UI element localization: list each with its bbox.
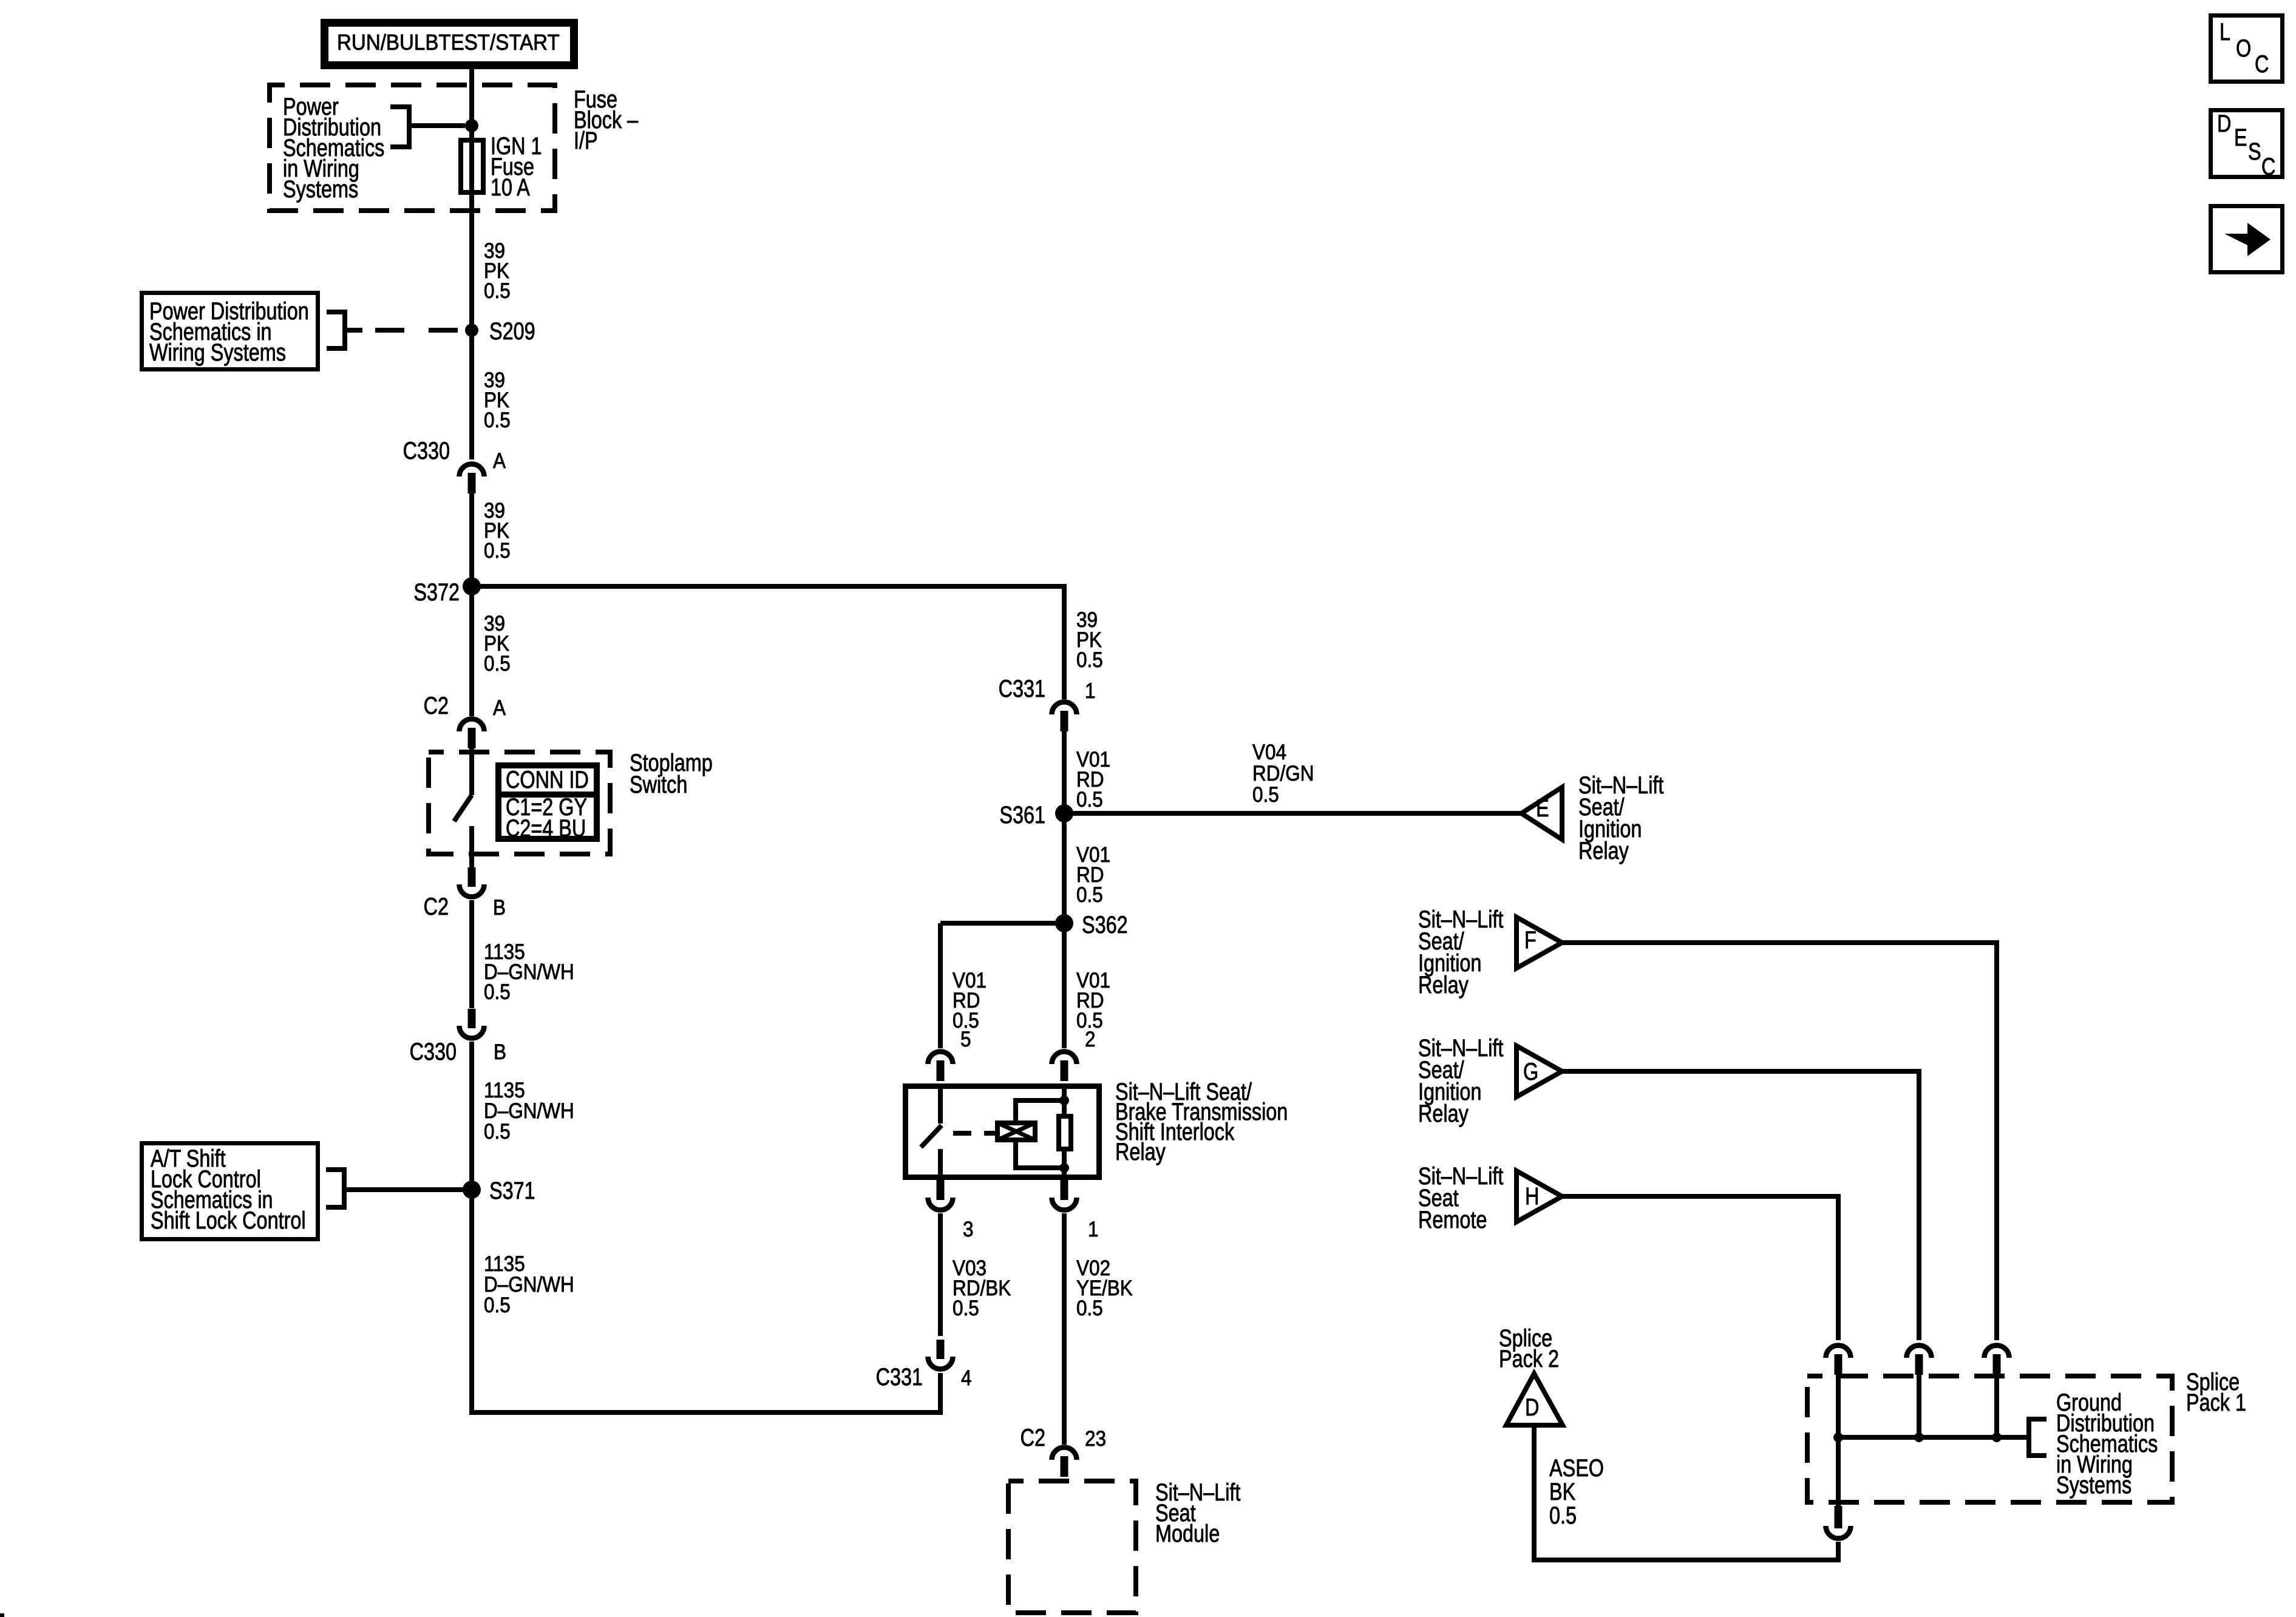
bracket from Power Distribution reference to fuse feed [390,107,465,147]
splice S362 [1055,911,1128,938]
node coil loop bottom [1059,1163,1069,1173]
label C2 (pin B) [424,893,506,920]
splice S371 [463,1177,535,1204]
icon box LOC [2211,16,2283,82]
connector C330 pin A [460,464,484,494]
svg-text:0.5: 0.5 [1252,784,1279,807]
label Ground Distribution Schematics [2056,1389,2158,1499]
relay coil [996,1122,1036,1141]
relay switch contact upper [938,1086,943,1124]
svg-text:1: 1 [1088,1218,1099,1242]
connector arrow H from Sit-N-Lift Seat Remote [1517,1171,1562,1222]
fuse IGN 1 10A [461,140,483,192]
svg-text:S: S [2248,138,2261,165]
connector C331 pin 4 [928,1340,953,1369]
svg-text:C2=4 BU: C2=4 BU [506,815,586,842]
svg-text:0.5: 0.5 [484,280,511,303]
connector splice pack (F wire) [1985,1346,2009,1375]
svg-text:Systems: Systems [2056,1471,2131,1499]
reference box Power Distribution Schematics in Wiring Systems [142,293,318,370]
wire label V04 RD/GN 0.5 [1252,741,1314,807]
svg-text:Shift Lock Control: Shift Lock Control [151,1207,306,1234]
wire splice pack output to D [1534,1425,1838,1560]
relay resistor [1059,1086,1071,1178]
connector arrow F from Sit-N-Lift Seat/Ignition Relay [1517,917,1562,968]
svg-text:B: B [494,1041,506,1065]
svg-text:V04: V04 [1252,741,1286,765]
wire label V01 RD 0.5 (pin 5) [953,969,987,1033]
label Stoplamp Switch [630,749,713,798]
wire S362 to relay pin 2 [1062,923,1067,1048]
svg-text:A: A [493,697,506,720]
svg-text:C2: C2 [1021,1424,1045,1451]
svg-text:E: E [1536,795,1549,822]
svg-text:0.5: 0.5 [1076,884,1103,907]
relay box Sit-N-Lift Seat / BTSI [906,1086,1099,1178]
wire G to splice pack [1562,1071,1919,1340]
Sit-N-Lift Seat Module dashed outline [1008,1481,1136,1613]
svg-text:C331: C331 [999,675,1045,702]
label IGN 1 Fuse 10 A [491,132,542,201]
reference text Power Distribution Schematics (fuse block) [283,93,384,203]
svg-text:D: D [1525,1394,1539,1421]
svg-text:CONN ID: CONN ID [506,766,589,793]
wire F column inside splice pack [1994,1374,1999,1437]
wire label V01 RD 0.5 (above S362) [1076,844,1110,907]
wire C330 B to S371 [469,1042,474,1190]
wire label 39 PK 0.5 (below S372) [484,612,511,676]
wire G column inside splice pack [1917,1374,1921,1437]
svg-text:Module: Module [1155,1520,1220,1547]
wire label 39 PK 0.5 (above S209) [484,240,511,303]
wire label 1135 D-GN/WH 0.5 (upper) [484,941,574,1005]
svg-text:0.5: 0.5 [1549,1502,1577,1529]
wire F to splice pack [1562,943,1997,1340]
wire label 1135 D-GN/WH 0.5 (lower) [484,1253,574,1318]
svg-text:Relay: Relay [1418,971,1469,998]
node ground bus (H) [1833,1432,1843,1442]
svg-text:Pack 1: Pack 1 [2186,1389,2246,1416]
wire label 1135 D-GN/WH 0.5 (middle) [484,1079,574,1144]
fuse block I/P dashed outline [270,85,555,211]
ignition voltage source box RUN/BULBTEST/START [325,23,574,66]
svg-text:B: B [493,897,506,920]
reference box A/T Shift Lock Control Schematics [142,1144,318,1239]
label Sit-N-Lift Seat Ignition Relay (G) [1418,1034,1503,1127]
svg-text:Systems: Systems [283,175,358,203]
node coil loop top [1059,1096,1069,1105]
svg-text:5: 5 [960,1028,971,1052]
svg-text:0.5: 0.5 [484,1120,511,1144]
wire S372 branch to C331 [472,586,1064,699]
svg-text:C2: C2 [424,893,449,920]
connector C2 pin A [460,719,484,749]
svg-text:0.5: 0.5 [484,1294,511,1318]
wire H column inside splice pack [1836,1374,1841,1506]
svg-text:E: E [2234,124,2247,151]
svg-text:S362: S362 [1082,911,1128,938]
connector relay pin 2 [1052,1051,1077,1081]
connector splice pack (G wire) [1907,1346,1932,1375]
wire S362 branch to relay pin 5 [940,923,1064,1048]
splice S372 [413,577,481,606]
label Sit-N-Lift Seat Brake Transmission Shift Interlock Relay [1115,1078,1288,1165]
wire C331 1 to S361 [1062,731,1067,813]
pin 3 label [963,1218,974,1242]
label C331 (pin 4) [876,1363,972,1391]
svg-text:C2: C2 [424,692,449,719]
relay switch contact lower [938,1149,943,1178]
wire label 39 PK 0.5 (below C330 A) [484,500,511,563]
dashed reference line to S209 [345,328,463,333]
stoplamp switch dashed outline [429,752,610,854]
connector arrow E to Sit-N-Lift Seat/Ignition Relay [1521,787,1562,839]
wire label V02 YE/BK 0.5 [1076,1257,1133,1321]
connector C331 pin 1 [1052,702,1077,731]
label Splice Pack 2 [1499,1324,1559,1372]
label Sit-N-Lift Seat Remote (H) [1418,1162,1503,1233]
wire label 39 PK 0.5 (below S209) [484,369,511,433]
connector arrow D to Splice Pack 2 [1506,1374,1563,1425]
svg-text:H: H [1525,1182,1539,1210]
svg-text:S361: S361 [999,801,1045,829]
svg-text:Remote: Remote [1418,1206,1487,1233]
wire label V03 RD/BK 0.5 [953,1257,1011,1321]
svg-text:0.5: 0.5 [484,409,511,433]
svg-text:I/P: I/P [574,127,598,154]
svg-text:2: 2 [1085,1028,1096,1052]
node ground bus (G) [1914,1432,1924,1442]
svg-text:Relay: Relay [1418,1100,1469,1127]
wire S371 down to corner [472,1190,940,1412]
connector relay pin 5 [928,1051,953,1081]
wire label V01 RD 0.5 (above S361) [1076,748,1110,812]
node fuse feed junction [465,119,478,132]
relay coil loop wiring [1016,1100,1064,1168]
wire label ASEO BK 0.5 [1549,1454,1604,1529]
svg-text:RUN/BULBTEST/START: RUN/BULBTEST/START [337,31,560,55]
wire relay pin 1 down [1062,1213,1067,1445]
stoplamp switch contact (lower) [469,826,474,867]
wire H to splice pack [1562,1196,1838,1340]
svg-text:0.5: 0.5 [1076,788,1103,812]
bracket to Ground Distribution Schematics [2029,1419,2046,1456]
svg-text:0.5: 0.5 [1076,649,1103,673]
svg-text:23: 23 [1085,1428,1106,1451]
relay switch blade [921,1125,942,1147]
wire S361 to relay E [1064,811,1521,816]
label C2 (pin A) [424,692,506,720]
label Splice Pack 1 [2186,1368,2246,1416]
wire label 39 PK 0.5 (right branch) [1076,609,1103,673]
bracket from Power Distribution box [327,312,345,348]
svg-text:C: C [2255,50,2269,78]
svg-text:S371: S371 [489,1177,535,1204]
label C331 (pin 1) [999,675,1096,703]
svg-text:C331: C331 [876,1363,923,1391]
connector C2 pin 23 [1052,1448,1077,1477]
Splice Pack 1 dashed outline [1807,1376,2172,1502]
connector relay pin 3 [928,1180,953,1210]
svg-text:0.5: 0.5 [484,981,511,1005]
bracket from A/T Shift Lock box [326,1170,344,1207]
splice S209 [465,317,535,345]
svg-text:C330: C330 [410,1038,457,1065]
svg-text:Wiring Systems: Wiring Systems [149,339,286,366]
svg-text:1: 1 [1085,680,1096,703]
svg-text:Switch: Switch [630,771,687,798]
svg-text:Relay: Relay [1578,837,1629,864]
svg-text:4: 4 [961,1367,972,1391]
icon box forward arrow [2211,206,2283,273]
pin 2 label [1085,1028,1096,1052]
svg-text:F: F [1524,926,1537,954]
ground bus in splice pack [1838,1435,2029,1440]
connector C2 pin B [460,867,484,897]
label Sit-N-Lift Seat Ignition Relay (F) [1418,906,1503,998]
svg-text:C330: C330 [403,437,450,464]
wire from RUN/BULBTEST/START to C330 A [469,69,474,459]
connector arrow G from Sit-N-Lift Seat/Ignition Relay [1517,1046,1562,1097]
svg-text:0.5: 0.5 [953,1297,979,1321]
svg-text:O: O [2236,35,2251,62]
wire label V01 RD 0.5 (pin 2) [1076,969,1110,1033]
svg-text:0.5: 0.5 [484,653,511,676]
relay actuating dashed link [953,1131,995,1136]
label Sit-N-Lift Seat Ignition Relay (E) [1578,771,1663,864]
label C330 (pin A) [403,437,506,473]
svg-text:D: D [2217,110,2231,137]
svg-text:3: 3 [963,1218,974,1242]
stoplamp switch contact (upper) [469,748,474,795]
wire C330 A to C2 A [469,493,474,716]
label C2 (pin 23) [1021,1424,1106,1451]
svg-text:L: L [2220,18,2230,46]
connector C330 pin B [460,1009,484,1038]
svg-text:G: G [1523,1058,1538,1085]
connector splice pack output [1826,1506,1851,1538]
label Fuse Block I/P [574,86,639,154]
stray mark bottom left [0,1613,4,1617]
svg-text:Relay: Relay [1115,1138,1166,1165]
stoplamp switch blade [454,795,472,821]
svg-text:0.5: 0.5 [1076,1297,1103,1321]
pin 5 label [960,1028,971,1052]
svg-text:RD/GN: RD/GN [1252,762,1314,786]
wire A/T reference to S371 [344,1187,465,1192]
icon box DESC [2211,110,2283,180]
node ground bus (F) [1992,1432,2002,1442]
CONN ID table [495,765,600,842]
label C330 (pin B) [410,1038,506,1065]
splice S361 [999,801,1073,829]
wire relay pin 3 down [938,1213,943,1336]
svg-text:Pack 2: Pack 2 [1499,1345,1559,1372]
wire S361 to S362 [1062,813,1067,923]
svg-text:S209: S209 [489,317,535,345]
connector splice pack (H wire) [1826,1346,1851,1375]
svg-text:0.5: 0.5 [484,540,511,563]
svg-text:C: C [2261,153,2275,180]
label Sit-N-Lift Seat Module [1155,1479,1240,1547]
pin 1 label [1088,1218,1099,1242]
svg-text:S372: S372 [413,578,460,606]
svg-text:10 A: 10 A [491,174,530,201]
wire C2 B to C330 B [469,900,474,1008]
connector relay pin 1 [1052,1180,1077,1210]
svg-text:A: A [493,450,506,473]
